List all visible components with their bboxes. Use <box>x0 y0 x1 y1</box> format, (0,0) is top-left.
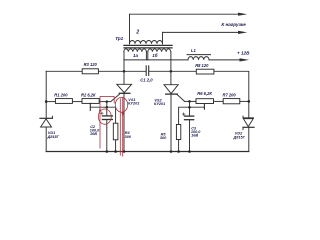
svg-text:R3 120: R3 120 <box>84 62 98 67</box>
wire R7 to right rail <box>240 100 249 102</box>
resistor R6 <box>196 99 214 104</box>
transformer T1 core <box>124 44 172 46</box>
svg-text:2: 2 <box>135 29 139 35</box>
svg-text:16В: 16В <box>191 133 198 137</box>
wire top output line 1 <box>130 13 240 15</box>
red highlight horizontal wire <box>100 95 114 97</box>
svg-text:1а: 1а <box>133 53 139 58</box>
resistor R8 <box>196 69 214 74</box>
svg-text:Тр1: Тр1 <box>115 36 123 41</box>
arrow to load 2 <box>238 31 247 34</box>
thyristor VS1 <box>123 52 125 85</box>
wire top output line 2 <box>163 31 240 33</box>
wire VS1 gate diagonal <box>111 94 120 101</box>
wire riser winding2 right <box>162 32 164 43</box>
wire tap R2 to R4 <box>91 107 116 123</box>
node VS2 anode <box>170 70 173 73</box>
transformer T1 winding 1b <box>148 49 171 52</box>
red highlight cathode wire b <box>122 97 124 156</box>
capacitor C3 <box>189 101 191 116</box>
node left rail R1 junction <box>45 100 48 103</box>
red ellipse around VS1 gate <box>115 97 127 112</box>
capacitor C1 <box>145 66 147 76</box>
arrow +12V <box>240 58 250 61</box>
svg-text:R1 200: R1 200 <box>54 93 68 98</box>
zener diode VD1 <box>40 117 52 119</box>
svg-text:1б: 1б <box>152 52 158 58</box>
svg-text:R6 6,2К: R6 6,2К <box>197 91 212 96</box>
wire VS2 gate to R6 <box>185 100 196 102</box>
node VS1 anode <box>123 70 126 73</box>
node tap line C3 junction <box>188 106 191 109</box>
polarity plus C2 <box>101 112 103 114</box>
wire R5 to rail <box>178 140 180 152</box>
resistor R2 <box>82 99 99 104</box>
right rail bottom <box>248 127 250 151</box>
node rail VS2 cathode <box>170 150 173 153</box>
svg-text:+ 12В: + 12В <box>237 51 250 56</box>
wire R4 to rail <box>115 140 117 152</box>
node rail C2 <box>106 150 109 153</box>
svg-text:КУ201: КУ201 <box>154 102 165 106</box>
transformer T1 winding 1a <box>124 49 147 52</box>
transformer T1 winding 2 <box>130 41 163 44</box>
wire riser winding2 left <box>129 14 131 44</box>
inductor L1 <box>188 57 209 60</box>
wire R3 to VS1 anode <box>98 70 146 72</box>
capacitor C2 <box>106 102 108 116</box>
node tap line C2 junction <box>106 106 109 109</box>
red ellipse around C2 <box>98 109 111 124</box>
svg-text:L1: L1 <box>191 48 197 53</box>
polarity plus C3 <box>183 113 185 115</box>
svg-text:300: 300 <box>160 136 167 140</box>
svg-text:К нагрузке: К нагрузке <box>221 22 246 27</box>
svg-text:Д815Г: Д815Г <box>47 135 60 139</box>
svg-text:16В: 16В <box>90 132 97 136</box>
wire L1 to +12V arrow <box>209 59 240 61</box>
thyristor VS2 <box>170 52 172 85</box>
svg-text:300: 300 <box>125 135 132 139</box>
resistor R3 <box>82 69 98 74</box>
node rail C3 <box>188 150 191 153</box>
red highlight cathode wire a <box>119 98 121 155</box>
svg-text:КУ201: КУ201 <box>128 102 139 106</box>
zener diode VD2 <box>243 117 253 119</box>
wire R6 to R7 <box>214 100 224 102</box>
resistor R4 <box>113 123 118 140</box>
wire VS2 gate diagonal <box>177 95 184 102</box>
wire R8 to right rail <box>214 71 249 118</box>
trimmer tap bar R6 <box>203 104 205 110</box>
node R2 line C2 junction <box>106 100 109 103</box>
left rail bottom <box>45 127 47 152</box>
red highlight left vertical wire <box>99 96 101 148</box>
node right rail R7 junction <box>248 100 251 103</box>
wire tap R6 to R5 <box>179 107 205 124</box>
trimmer tap bar R2 <box>89 103 91 110</box>
svg-text:R8 120: R8 120 <box>195 63 209 68</box>
wire R2 to VS1 gate <box>99 101 111 103</box>
resistor R7 <box>223 99 240 104</box>
node rail VS1 cathode <box>123 150 126 153</box>
resistor R1 <box>55 99 72 104</box>
node rail R5 <box>177 150 180 153</box>
wire C1 to VS2 anode to R8 <box>149 70 196 72</box>
red highlight short vertical wire <box>113 96 115 103</box>
wire R1 to R2 <box>72 101 82 103</box>
red arrow down <box>122 113 124 117</box>
wire rail to R1 <box>46 101 55 103</box>
wire main anode line left <box>46 70 82 72</box>
arrow to load 1 <box>238 13 247 16</box>
wire center tap line to L1 <box>124 59 188 61</box>
resistor R5 <box>176 125 180 140</box>
svg-text:R2 6,2К: R2 6,2К <box>81 92 96 97</box>
red arrow up <box>99 108 101 112</box>
left rail top <box>45 71 47 118</box>
node rail R4 <box>114 150 117 153</box>
svg-text:Д815Г: Д815Г <box>233 135 246 139</box>
bottom rail <box>46 151 249 153</box>
svg-text:С1 2,0: С1 2,0 <box>140 78 153 83</box>
node gate C3 junction <box>188 100 191 103</box>
svg-text:R7 200: R7 200 <box>223 92 237 97</box>
